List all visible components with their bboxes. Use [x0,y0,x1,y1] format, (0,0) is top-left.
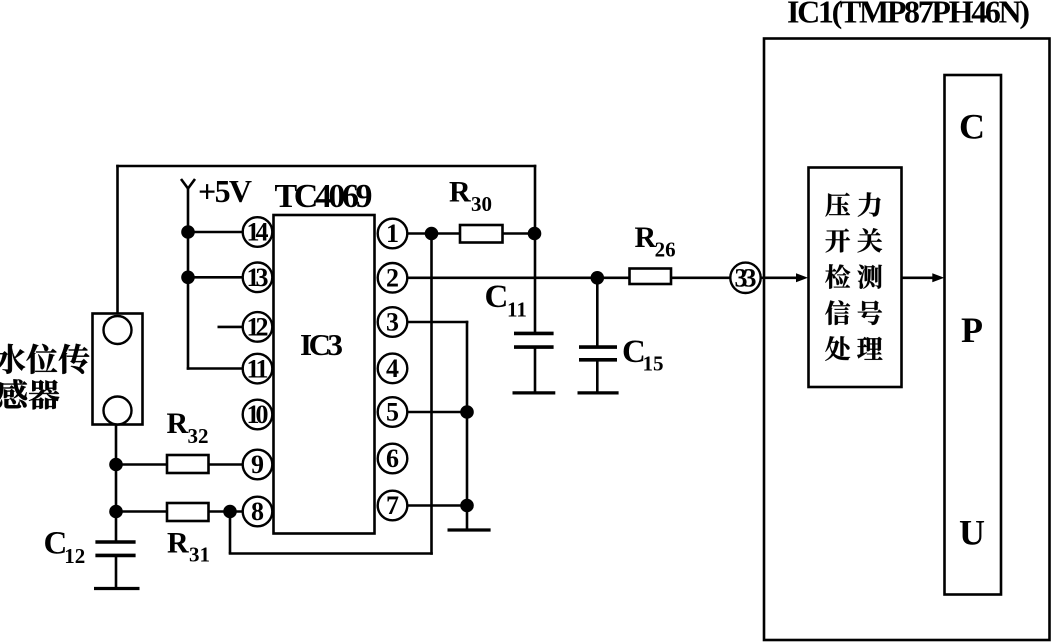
ground bar below C15 [578,391,619,394]
wire C12 lower lead [115,556,118,589]
svg-text:P: P [961,310,983,350]
node pin 33 circle [730,263,760,293]
IC1 microcontroller body [764,39,1050,641]
wire to pin 14 [188,231,244,234]
svg-text:13: 13 [247,263,269,292]
svg-text:8: 8 [251,497,264,526]
svg-text:26: 26 [655,238,676,262]
node sensor/R32 junction [109,458,123,472]
svg-text:IC1(TMP87PH46N): IC1(TMP87PH46N) [787,0,1030,30]
svg-text:11: 11 [247,354,269,383]
svg-text:3: 3 [386,308,399,337]
+5V supply symbol [181,179,195,189]
node R30/C11 junction [528,227,542,241]
wire C11 column vertical (top bus down to C11) [534,165,537,333]
svg-text:12: 12 [64,544,85,568]
pin 12 circle [243,312,273,342]
wire R31 to pin 8 [209,510,244,513]
wire C15 lower lead [596,361,599,393]
svg-text:+5V: +5V [198,173,252,209]
wire stub pin 12 [218,326,244,329]
pin 5 circle [378,397,408,427]
svg-text:TC4069: TC4069 [275,178,373,215]
svg-text:R: R [449,176,471,209]
svg-text:11: 11 [507,298,527,322]
label C11 [485,279,527,322]
svg-text:33: 33 [735,264,757,293]
wire R26 to pin 33 [671,276,731,279]
wire C11 lower lead [534,348,537,393]
ground bar below C11 [513,391,556,394]
pin 1 circle [378,219,408,249]
pin 6 circle [378,444,408,474]
pin 7 circle [378,491,408,521]
svg-text:1: 1 [386,219,399,248]
wire R32 to pin 9 [209,463,244,466]
wire +5V to pin 11 [187,367,244,370]
pin 4 circle [378,354,408,384]
wire pin33 arrow into block [761,273,809,282]
wire top bus from sensor to C11 column [116,165,536,168]
pin 13 circle [243,263,273,293]
CPU block [945,75,1002,595]
svg-text:5: 5 [386,398,399,427]
svg-text:R: R [635,221,657,254]
svg-text:31: 31 [189,543,210,567]
pin 10 circle [243,400,273,430]
svg-text:6: 6 [386,444,399,473]
sensor bottom electrode circle [104,397,132,425]
svg-text:10: 10 [247,400,269,429]
node pin7 junction [460,499,474,513]
svg-text:C: C [485,279,509,315]
node pin5 junction [460,405,474,419]
sensor top electrode circle [104,316,132,344]
pin 14 circle [243,217,273,247]
wire pin 1 to R30 [407,232,460,235]
resistor R26 [630,269,672,285]
node +5V/pin13 junction [181,271,195,285]
svg-text:9: 9 [251,450,264,479]
wire feedback drop from pin 8 node [229,512,232,554]
capacitor C12 [95,542,135,555]
node pin1 junction [425,227,439,241]
wire sensor to R32 [116,463,167,466]
node pin8 feedback junction [223,505,237,519]
label R32 [167,407,209,448]
node +5V/pin14 junction [181,225,195,239]
svg-text:IC3: IC3 [300,327,343,362]
svg-text:15: 15 [643,352,664,376]
svg-text:32: 32 [188,424,209,448]
node C15 tap junction [591,271,605,285]
op-amp IC3 (TC4069 hex inverter) body [274,215,375,534]
label R30 [449,176,492,217]
label C12 [44,526,86,569]
pin 9 circle [243,450,273,480]
wire to pin 13 [188,276,244,279]
pin 8 circle [243,497,273,527]
wire block arrow into CPU [902,273,945,282]
label 压力开关检测信号处理 [825,192,882,360]
pin 11 circle [243,354,273,384]
block 压力开关检测信号处理 [809,168,902,388]
svg-text:14: 14 [247,218,269,247]
wire pin 3 horizontal [407,321,468,324]
label R31 [167,526,210,566]
wire pin 7 to node [407,504,467,507]
wire feedback bottom run [229,552,433,555]
svg-text:R: R [167,407,189,440]
resistor R32 [167,455,209,473]
water level sensor body [93,314,143,425]
wire +5V stem [187,187,190,370]
svg-text:R: R [167,526,189,559]
wire sensor bottom to C12 [115,424,118,541]
svg-text:30: 30 [471,192,492,216]
label R26 [635,221,676,262]
wire pin 3 vertical to ground [466,321,469,530]
wire R30 to C11 column [503,232,537,235]
pin 3 circle [378,307,408,337]
resistor R30 [460,225,503,243]
svg-text:2: 2 [386,264,399,293]
capacitor C15 [579,347,617,360]
svg-text:4: 4 [386,354,399,383]
ground bar at pin 7 node [448,528,491,531]
wire C15 drop from signal line [596,278,599,346]
wire feedback riser to pin 1 node [430,234,433,555]
wire pin 5 to node [407,411,467,414]
resistor R31 [167,503,209,521]
svg-text:7: 7 [386,491,399,520]
wire sensor to R31 [116,510,167,513]
capacitor C11 [514,333,554,347]
svg-text:12: 12 [247,313,269,342]
pin 2 circle [378,263,408,293]
wire left vertical to sensor top [116,165,119,315]
ground bar below C12 [94,587,140,590]
svg-text:U: U [959,513,985,553]
svg-text:C: C [959,107,985,147]
label 水位传感器 [0,344,89,410]
wire pin 2 signal line to R26 [407,276,629,279]
node sensor/R31/C12 junction [109,505,123,519]
label C15 [622,334,664,376]
